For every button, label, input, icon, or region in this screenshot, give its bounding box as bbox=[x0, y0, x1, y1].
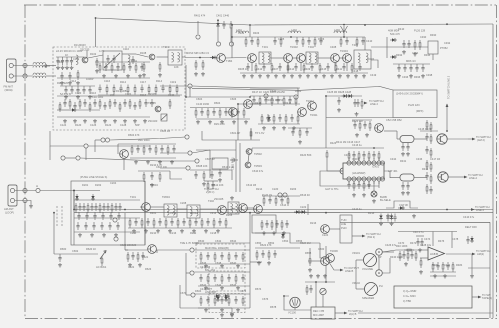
transistor TR405 limiter bbox=[343, 54, 352, 63]
ground bias bbox=[230, 312, 234, 316]
svg-text:C122: C122 bbox=[125, 92, 132, 96]
tone network row 2 part 5 bbox=[235, 274, 237, 284]
svg-text:R642: R642 bbox=[200, 283, 207, 287]
wire: TP3 drop bbox=[230, 31, 232, 42]
ground IF strip bbox=[298, 74, 302, 78]
svg-text:D201: D201 bbox=[82, 183, 89, 187]
svg-text:R616 4K: R616 4K bbox=[300, 193, 310, 197]
antenna symbol AM rod antenna bbox=[341, 26, 348, 32]
svg-text:SPEAKER: SPEAKER bbox=[362, 296, 374, 300]
wire: T101 out bbox=[182, 56, 185, 58]
part mpx col 4 bbox=[219, 108, 221, 118]
part am det upper 0 bbox=[263, 196, 265, 206]
svg-text:VC100: VC100 bbox=[288, 311, 296, 315]
ground det lower bbox=[397, 74, 401, 78]
svg-text:TR105: TR105 bbox=[148, 101, 156, 105]
IC401 top pin 2 bbox=[352, 161, 356, 165]
part am conv 4 bbox=[155, 145, 157, 155]
wire: agc out bbox=[330, 228, 341, 230]
wire: am if row join bbox=[227, 208, 236, 210]
wire: mpx ladder bottom bbox=[258, 123, 300, 125]
wire: pilot lamp drive bbox=[378, 181, 380, 188]
svg-text:C490: C490 bbox=[420, 35, 427, 39]
tone row 1 dashed box bbox=[196, 244, 245, 268]
transistor TR201 AM converter bbox=[142, 203, 151, 212]
svg-text:K1A 1000: K1A 1000 bbox=[92, 95, 104, 99]
transistor TR408 AM IF out bbox=[438, 172, 448, 182]
capacitor C427 bbox=[356, 99, 359, 107]
wire: af bias drop bbox=[309, 248, 311, 256]
svg-text:D203: D203 bbox=[290, 187, 297, 191]
ground IF strip bbox=[266, 74, 270, 78]
wire: tp feed 2 bbox=[192, 86, 300, 88]
svg-text:C650: C650 bbox=[255, 241, 262, 245]
resistor R106 bbox=[159, 62, 161, 72]
capacitor det lower bbox=[415, 64, 418, 72]
wire: vertical pair a bbox=[235, 140, 237, 192]
wire: vr1 feed bbox=[356, 259, 364, 261]
wire: mpx bot rail bbox=[196, 118, 250, 120]
svg-text:C492: C492 bbox=[444, 41, 451, 45]
inductor L102 balun lower bbox=[33, 73, 46, 75]
ground bbox=[60, 81, 64, 85]
ground tone in bbox=[138, 263, 142, 267]
svg-text:R403: R403 bbox=[253, 31, 260, 35]
part opamp feed 0 bbox=[399, 251, 401, 261]
wire: AM ant pin2 to gnd bbox=[15, 201, 31, 205]
arrow muting up bbox=[446, 104, 449, 108]
part right ladder 2 bbox=[363, 121, 366, 129]
wire IC bottom pin drop bbox=[363, 181, 365, 184]
svg-text:C605 1B: C605 1B bbox=[160, 129, 170, 133]
svg-text:R431: R431 bbox=[400, 159, 407, 163]
diode D604 bbox=[216, 295, 219, 302]
svg-text:TR402: TR402 bbox=[290, 45, 298, 49]
ground am conv bbox=[146, 160, 150, 164]
svg-text:BAL 4TA: BAL 4TA bbox=[205, 268, 215, 272]
wire: mpx box shelf bbox=[326, 117, 393, 119]
tone network row 1 part 0 bbox=[200, 252, 202, 262]
wire: tone out to amp bbox=[250, 261, 262, 263]
diode D404 bbox=[267, 115, 270, 122]
node junction dot bbox=[231, 24, 233, 26]
J2 pin 2 bbox=[10, 198, 14, 202]
component hanging from IF rail 11 bbox=[340, 37, 342, 47]
ground tone row 2 bbox=[236, 286, 240, 290]
wire: T202 link bbox=[177, 208, 187, 210]
wire: drop to AM bus bbox=[73, 191, 75, 210]
AM IF lower ladder 12 bbox=[201, 218, 203, 228]
svg-text:C104: C104 bbox=[73, 57, 80, 61]
svg-text:C432: C432 bbox=[344, 153, 351, 157]
svg-text:C632: C632 bbox=[215, 239, 222, 243]
potentiometer VR2 balance bbox=[365, 283, 378, 296]
ground IF strip bbox=[330, 74, 334, 78]
oscillator coil box L210 bbox=[212, 158, 228, 169]
wire: B+ top rail bbox=[96, 18, 494, 25]
component in osc ladder 11 bbox=[109, 99, 111, 109]
wire: tuner inner h2 bbox=[74, 217, 140, 219]
wire: am tuner h5 bbox=[144, 181, 146, 245]
part opamp feed 2 bbox=[407, 251, 409, 261]
wire: vert x250 from H1 to det bbox=[249, 25, 251, 37]
wire: s3b right bbox=[110, 137, 185, 140]
test point TP9 bbox=[283, 193, 287, 197]
svg-text:R210 4.7K: R210 4.7K bbox=[150, 163, 163, 167]
transistor TR203 bbox=[0, 0, 1, 1]
switch SW1 function box bbox=[340, 215, 352, 243]
resistor R449 bbox=[430, 174, 432, 184]
wire IC bottom pin drop bbox=[373, 181, 375, 184]
diode D406 bbox=[398, 206, 405, 209]
switch contact S2c bbox=[191, 293, 195, 297]
wire: s3c right bbox=[80, 158, 195, 161]
ground tone row 3 bbox=[236, 308, 240, 312]
af ladder 0 bbox=[256, 250, 258, 260]
wire: tone in bus bbox=[125, 249, 147, 251]
wire: mpx net a bbox=[250, 95, 294, 97]
svg-text:TUN: TUN bbox=[341, 218, 346, 222]
AM IF lower ladder 14 bbox=[213, 218, 215, 228]
wire: antenna pin1 to bus bbox=[13, 65, 33, 67]
svg-text:R212: R212 bbox=[190, 231, 197, 235]
wire: stage stair 2 bbox=[202, 131, 238, 140]
svg-text:C130: C130 bbox=[168, 93, 175, 97]
ground AM IF bbox=[156, 229, 160, 233]
svg-text:R620 1K: R620 1K bbox=[86, 247, 96, 251]
node junction dot bbox=[249, 96, 251, 98]
opamp lower ladder 4 bbox=[452, 262, 454, 272]
svg-text:1K: 1K bbox=[65, 53, 68, 57]
node below IC bbox=[368, 185, 370, 187]
resistor R472 bbox=[420, 258, 422, 268]
wire: mpx top rail bbox=[186, 96, 250, 98]
wire: opamp in2 bbox=[420, 257, 428, 259]
ground AM tuner bbox=[90, 233, 94, 237]
notes box bbox=[394, 286, 472, 308]
svg-text:R492: R492 bbox=[396, 53, 403, 57]
part det ladder2 0 bbox=[252, 96, 255, 104]
ground IF strip bbox=[282, 74, 286, 78]
svg-text:(PUSH LINE STAGE S): (PUSH LINE STAGE S) bbox=[80, 175, 107, 179]
node junction dot bbox=[364, 24, 366, 26]
part mpx col 2 bbox=[207, 108, 209, 118]
bypass part IF strip 12 bbox=[342, 63, 345, 71]
svg-text:AC BIAS: AC BIAS bbox=[96, 265, 107, 269]
tone network row 1 part 4 bbox=[228, 252, 230, 262]
part opamp feed 1 bbox=[402, 251, 405, 259]
wire: under-box rail bbox=[98, 94, 182, 96]
wire: T202 out bbox=[200, 208, 217, 210]
node AM ant bus2 bbox=[23, 198, 27, 202]
ground R472 bbox=[419, 270, 423, 274]
capacitor C456 bbox=[406, 182, 409, 190]
wire: s3 vertical b bbox=[85, 148, 87, 160]
wire: drop to test point bbox=[197, 21, 199, 34]
svg-text:C410 4u: C410 4u bbox=[352, 207, 362, 211]
svg-text:R623: R623 bbox=[145, 267, 152, 271]
trimmer TC101 bbox=[161, 114, 167, 121]
ground R400b bbox=[201, 72, 205, 76]
arrow to switch LINE A bbox=[464, 176, 468, 179]
part mpx col 3 bbox=[212, 108, 215, 116]
wire: notes out bbox=[472, 296, 478, 298]
wire: meter top bus bbox=[305, 281, 335, 283]
capacitor C448 bbox=[407, 40, 410, 48]
part right ladder 0 bbox=[353, 121, 356, 129]
svg-text:C660: C660 bbox=[318, 247, 325, 251]
ground osc ladder bbox=[83, 119, 87, 123]
capacitor C103 bbox=[61, 57, 64, 65]
diode D204 bbox=[300, 210, 307, 213]
svg-text:R674: R674 bbox=[255, 287, 262, 291]
svg-text:TP 1.6V: TP 1.6V bbox=[255, 131, 265, 135]
ground osc ladder bbox=[143, 119, 147, 123]
ground am conv bbox=[170, 160, 174, 164]
IC401 bottom pin 13 bbox=[362, 177, 366, 181]
wire: antenna pin2 to bus bbox=[13, 75, 33, 77]
wire: TR404 to TR405 bbox=[340, 57, 344, 59]
wire: tp feed bbox=[160, 85, 188, 87]
T401 coils bbox=[262, 53, 264, 63]
wire: opamp left rail bbox=[416, 235, 424, 237]
diode D405b bbox=[347, 94, 354, 97]
IC401 MPX decoder HA1156W bbox=[343, 163, 384, 179]
svg-text:2A 2V 3RC16 C1 100P: 2A 2V 3RC16 C1 100P bbox=[56, 49, 83, 53]
ground AM ant bbox=[29, 204, 33, 208]
wire: bias top bus bbox=[179, 285, 181, 308]
svg-text:2SC405: 2SC405 bbox=[214, 197, 224, 201]
connector J2 AM loop antenna bbox=[8, 185, 17, 206]
svg-text:R114: R114 bbox=[156, 79, 163, 83]
wire IC bottom pin drop bbox=[378, 181, 380, 184]
part fm box upper2 1 bbox=[106, 85, 108, 95]
ground afc a bbox=[337, 108, 341, 112]
part det ladder2 3 bbox=[271, 96, 273, 106]
test point gang bbox=[113, 218, 117, 222]
node junction dot bbox=[53, 212, 55, 214]
svg-text:R208: R208 bbox=[226, 213, 233, 217]
resistor R107 bbox=[77, 70, 79, 80]
switch contact S3b pair 1 bbox=[101, 138, 105, 142]
diode D400 on IF input bbox=[210, 56, 217, 59]
opamp lower ladder 1 bbox=[436, 262, 439, 270]
part fm box mid 3 bbox=[116, 63, 119, 71]
tone network row 3 top wire bbox=[195, 293, 251, 295]
wire: drop fm box to mpx bbox=[185, 65, 187, 97]
capacitor det lower bbox=[421, 64, 424, 72]
ground IF strip bbox=[314, 74, 318, 78]
part fm box upper2 9 bbox=[161, 85, 164, 93]
svg-text:T402: T402 bbox=[308, 45, 314, 49]
ground AM IF bbox=[168, 229, 172, 233]
component hanging from IF rail 13 bbox=[356, 37, 358, 47]
wire: am det upper rail bbox=[262, 195, 300, 197]
test point TP3 bbox=[229, 42, 233, 46]
svg-text:4) TBD: 4) TBD bbox=[403, 299, 411, 303]
tone network row 3 part 0 bbox=[200, 296, 202, 306]
wire: am bus to trimmer bbox=[53, 213, 55, 214]
part above IC 5 bbox=[372, 151, 375, 159]
switch contact S1c bbox=[195, 159, 199, 163]
T203 coils bbox=[231, 204, 233, 214]
resistor R115 bbox=[169, 99, 171, 109]
svg-text:R118: R118 bbox=[140, 93, 147, 97]
ground af ladder bbox=[267, 261, 271, 265]
ground AM IF bbox=[192, 229, 196, 233]
wire: s3 vertical a bbox=[94, 140, 96, 152]
tone network row 2 part 0 bbox=[199, 274, 202, 282]
capacitor C122 bbox=[76, 86, 79, 94]
circle TP5 bbox=[264, 94, 268, 98]
node junction dot bbox=[124, 209, 126, 211]
wire: det lower rail bbox=[393, 63, 430, 65]
potentiometer VR1 volume bbox=[364, 254, 377, 267]
wire: page border dash-dot top bbox=[24, 4, 496, 6]
wire: ic bottom bus bbox=[345, 185, 379, 187]
ground R106 bbox=[158, 73, 162, 77]
wire: stair down to bias bbox=[49, 146, 51, 160]
wire: am if bottom bus bbox=[128, 227, 232, 229]
capacitor C601 bbox=[58, 254, 61, 262]
electrolytic C430 bbox=[371, 191, 377, 197]
part am conv 5 bbox=[160, 145, 163, 153]
svg-text:R652: R652 bbox=[268, 241, 275, 245]
resistor R603 bbox=[101, 256, 103, 266]
svg-text:C212: C212 bbox=[210, 211, 217, 215]
svg-text:R206: R206 bbox=[190, 211, 197, 215]
svg-text:C119: C119 bbox=[170, 80, 177, 84]
component in osc ladder 17 bbox=[139, 99, 141, 109]
svg-text:FR-2004X: FR-2004X bbox=[74, 43, 86, 47]
part det ladder2 5 bbox=[283, 96, 285, 106]
svg-text:C496: C496 bbox=[402, 75, 409, 79]
inductor L104 osc coil bbox=[128, 55, 130, 65]
tone network row 2 part 1 bbox=[207, 274, 209, 284]
ground bbox=[68, 81, 72, 85]
ground below C104 bbox=[65, 66, 69, 70]
resistor R444 bbox=[430, 122, 432, 132]
ground below IC 2 bbox=[362, 193, 366, 197]
tone network row 3 part 6 bbox=[242, 296, 244, 306]
transistor TR412 bbox=[308, 102, 317, 111]
wire IC top pin drop bbox=[368, 158, 370, 161]
svg-text:C401 C446: C401 C446 bbox=[216, 14, 230, 18]
ground below IC 3 bbox=[372, 199, 376, 203]
svg-text:T201: T201 bbox=[130, 195, 136, 199]
wire: opamp bottom bus bbox=[430, 271, 456, 273]
ground am bias bbox=[150, 183, 154, 187]
ground osc ladder bbox=[133, 119, 137, 123]
wire: afc to mpx box drop bbox=[325, 96, 327, 148]
IC401 bottom pin 14 bbox=[357, 177, 361, 181]
ground IF strip bbox=[362, 74, 366, 78]
svg-text:R678: R678 bbox=[270, 305, 277, 309]
wire: 19kHz out left bbox=[320, 171, 345, 186]
ground fb net bbox=[470, 274, 474, 278]
ground tone row 3 bbox=[204, 308, 208, 312]
svg-text:AM(2): AM(2) bbox=[477, 252, 484, 256]
svg-text:(LOOP): (LOOP) bbox=[5, 211, 14, 215]
wire: conv drop bbox=[123, 159, 125, 171]
svg-text:4.7K: 4.7K bbox=[99, 49, 105, 53]
wire: s3a right bbox=[88, 145, 150, 147]
svg-text:R658: R658 bbox=[305, 251, 312, 255]
bypass part IF strip 5 bbox=[287, 63, 289, 73]
tone network row 3 part 4 bbox=[228, 296, 230, 306]
svg-text:R108: R108 bbox=[140, 51, 147, 55]
ground AM IF bbox=[204, 229, 208, 233]
node junction dot bbox=[249, 24, 251, 26]
part right ladder 3 bbox=[369, 121, 371, 131]
resistor R441 bbox=[414, 40, 416, 50]
ground tone bottom a bbox=[220, 313, 224, 317]
bypass part IF strip 14 bbox=[358, 63, 361, 71]
part am bias2 2 bbox=[210, 171, 213, 179]
svg-text:DELT DRI: DELT DRI bbox=[465, 225, 477, 229]
AM IF lower ladder 1 bbox=[134, 218, 137, 226]
ground osc ladder bbox=[103, 119, 107, 123]
svg-text:LINE B: LINE B bbox=[345, 269, 353, 273]
AM IF lower ladder 13 bbox=[206, 218, 209, 226]
wire: jack feed bbox=[382, 251, 394, 253]
svg-text:LINE 2: LINE 2 bbox=[476, 208, 484, 212]
wire: composite to IC bbox=[238, 103, 262, 105]
wire: switch net h150 bbox=[192, 150, 210, 153]
capacitor C426 bbox=[353, 99, 356, 107]
node junction dot bbox=[325, 95, 327, 97]
tone network row 3 part 5 bbox=[234, 296, 237, 304]
arrow recpb out bbox=[344, 312, 348, 315]
component hanging from IF rail 3 bbox=[257, 37, 259, 47]
ground mpx col bbox=[244, 120, 248, 124]
ground tone in bbox=[128, 263, 132, 267]
svg-text:FM ANT: FM ANT bbox=[4, 85, 14, 89]
part fm box upper2 2 bbox=[113, 85, 115, 95]
wire: page border dash-dot right bbox=[496, 5, 498, 319]
IF transformer T101 box bbox=[168, 50, 182, 65]
svg-text:(300Ω): (300Ω) bbox=[5, 88, 13, 92]
ground AM IF bbox=[132, 229, 136, 233]
IC401 top pin 4 bbox=[362, 161, 366, 165]
wire: meter drop wire bbox=[322, 295, 324, 307]
AM det ladder 3 bbox=[275, 220, 278, 228]
wire: s2a feed bbox=[157, 250, 190, 253]
parts group above pair bbox=[291, 128, 294, 136]
wire: am bias rail2 bbox=[190, 169, 222, 171]
wire: jack to opamp L bbox=[382, 250, 396, 252]
wire: fm box to am stair bbox=[189, 86, 191, 97]
svg-text:C478: C478 bbox=[452, 237, 459, 241]
wire: pair out bbox=[251, 148, 253, 152]
ground fm box mid bbox=[138, 74, 142, 78]
wire: tuner inner h3 bbox=[74, 231, 140, 233]
part mpx col 7 bbox=[236, 108, 239, 116]
ground AM tuner bbox=[114, 233, 118, 237]
transistor TR102 FM mixer bbox=[149, 54, 155, 60]
part mpx col 5 bbox=[224, 108, 227, 116]
AM tuner part row2 3 bbox=[100, 222, 103, 230]
capacitor C105 bbox=[70, 57, 73, 65]
ground D408 bbox=[390, 222, 394, 226]
wire: conv in bbox=[140, 206, 142, 208]
svg-text:PT052: PT052 bbox=[440, 46, 448, 50]
svg-text:C220: C220 bbox=[272, 187, 279, 191]
part mpx ladder 4 bbox=[285, 114, 287, 124]
AM tuner part col 9 bbox=[111, 203, 113, 213]
svg-text:4) Qₓₓ RMR: 4) Qₓₓ RMR bbox=[403, 289, 417, 293]
tone network row 3 part 2 bbox=[214, 296, 216, 306]
